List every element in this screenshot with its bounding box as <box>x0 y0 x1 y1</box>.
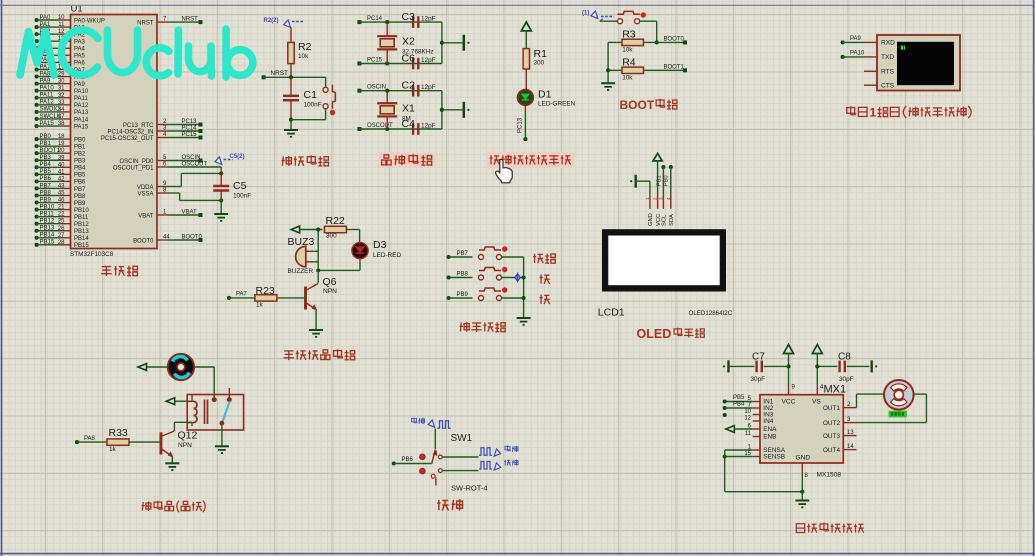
svg-text:R33: R33 <box>109 427 128 439</box>
svg-text:PC15-OSC32_OUT: PC15-OSC32_OUT <box>101 136 154 142</box>
svg-text:PB8: PB8 <box>457 272 469 278</box>
svg-text:PA11: PA11 <box>40 93 54 99</box>
svg-text:NRST: NRST <box>271 70 288 77</box>
svg-text:OSCIN: OSCIN <box>182 155 201 161</box>
svg-text:44: 44 <box>163 235 170 241</box>
svg-text:10k: 10k <box>622 47 633 54</box>
svg-text:PB5: PB5 <box>40 169 52 175</box>
svg-text:OUT3: OUT3 <box>823 433 840 440</box>
svg-text:NPN: NPN <box>323 288 337 295</box>
svg-text:PA10: PA10 <box>850 51 865 57</box>
svg-text:30: 30 <box>58 79 65 85</box>
svg-text:30pF: 30pF <box>751 376 766 383</box>
svg-text:PB13: PB13 <box>74 229 89 235</box>
svg-text:43: 43 <box>58 183 65 189</box>
svg-text:25: 25 <box>58 219 65 225</box>
svg-text:PB1: PB1 <box>40 141 52 147</box>
svg-text:OSCOUT: OSCOUT <box>367 123 393 129</box>
svg-text:OUT2: OUT2 <box>823 420 840 427</box>
svg-text:PC13: PC13 <box>182 119 198 125</box>
svg-text:39: 39 <box>58 155 65 161</box>
svg-text:PB13: PB13 <box>40 226 55 232</box>
svg-text:11: 11 <box>58 22 65 28</box>
svg-text:PB9: PB9 <box>457 292 469 298</box>
svg-text:R22: R22 <box>326 215 345 227</box>
svg-text:100nF: 100nF <box>233 193 251 200</box>
svg-text:PA14: PA14 <box>74 117 89 123</box>
svg-text:PC15: PC15 <box>367 58 383 64</box>
svg-text:RTS: RTS <box>881 69 895 76</box>
svg-text:D3: D3 <box>373 239 387 251</box>
svg-text:STM32F103C8: STM32F103C8 <box>70 251 114 258</box>
svg-text:OSCOUT: OSCOUT <box>182 162 208 168</box>
svg-text:12: 12 <box>744 416 751 422</box>
svg-text:20: 20 <box>58 148 65 154</box>
svg-text:29: 29 <box>58 72 65 78</box>
svg-text:PB11: PB11 <box>40 211 55 217</box>
svg-text:PB3: PB3 <box>74 159 86 165</box>
svg-text:VBAT: VBAT <box>182 210 198 216</box>
svg-text:PA6: PA6 <box>74 61 86 67</box>
svg-text:12pF: 12pF <box>421 57 436 64</box>
svg-text:C3: C3 <box>402 11 416 23</box>
svg-text:PB0: PB0 <box>40 134 52 140</box>
svg-text:IN4: IN4 <box>763 418 773 425</box>
svg-text:1: 1 <box>870 105 877 119</box>
svg-text:BOOT: BOOT <box>620 98 655 112</box>
svg-text:SW1: SW1 <box>451 433 473 444</box>
svg-text:BOOT1: BOOT1 <box>664 64 685 70</box>
svg-text:C4: C4 <box>402 118 416 130</box>
svg-text:34: 34 <box>58 107 65 113</box>
svg-text:PB14: PB14 <box>74 236 89 242</box>
svg-text:C5(2): C5(2) <box>230 154 245 160</box>
svg-text:PB15: PB15 <box>74 243 89 249</box>
svg-text:GND: GND <box>796 455 811 462</box>
svg-text:MX1: MX1 <box>824 384 847 396</box>
svg-text:OUT1: OUT1 <box>823 405 840 412</box>
svg-text:Q12: Q12 <box>178 430 198 442</box>
svg-text:33: 33 <box>58 100 65 106</box>
svg-text:BOOT0: BOOT0 <box>664 37 685 43</box>
svg-text:PB1: PB1 <box>657 175 663 186</box>
svg-text:PB6: PB6 <box>402 457 414 463</box>
svg-text:SCL: SCL <box>662 214 668 226</box>
svg-text:TXD: TXD <box>881 54 894 61</box>
svg-text:NRST: NRST <box>182 17 199 23</box>
svg-text:VS: VS <box>812 399 821 406</box>
svg-text:VDDA: VDDA <box>137 185 154 191</box>
svg-text:PA10: PA10 <box>74 89 89 95</box>
svg-text:PA0: PA0 <box>40 15 52 21</box>
svg-text:38: 38 <box>58 121 65 127</box>
svg-text:NPN: NPN <box>178 442 192 449</box>
svg-text:14: 14 <box>847 444 854 450</box>
svg-text:PB4: PB4 <box>733 402 745 408</box>
svg-text:OSCOUT_PD1: OSCOUT_PD1 <box>113 165 154 171</box>
svg-text:C5: C5 <box>233 180 247 192</box>
svg-text:10k: 10k <box>622 74 633 81</box>
svg-text:28: 28 <box>58 240 65 246</box>
svg-text:PB0: PB0 <box>74 137 86 143</box>
svg-text:10: 10 <box>744 409 751 415</box>
svg-text:PA5: PA5 <box>74 54 86 60</box>
svg-text:300: 300 <box>534 60 545 67</box>
svg-text:PA4: PA4 <box>74 47 86 53</box>
svg-text:PA10: PA10 <box>40 86 55 92</box>
svg-text:30pF: 30pF <box>839 376 854 383</box>
svg-text:MX1508: MX1508 <box>817 472 842 479</box>
svg-text:12pF: 12pF <box>421 123 436 130</box>
svg-text:R23: R23 <box>256 285 275 297</box>
svg-text:300: 300 <box>326 233 337 240</box>
svg-text:1k: 1k <box>109 446 117 453</box>
svg-text:ENA: ENA <box>763 426 777 433</box>
svg-text:R2(2): R2(2) <box>264 18 279 24</box>
svg-text:46: 46 <box>58 198 65 204</box>
svg-text:PC13: PC13 <box>518 117 524 133</box>
svg-text:LED-GREEN: LED-GREEN <box>538 101 576 108</box>
svg-text:ENB: ENB <box>763 434 776 441</box>
svg-text:PA8: PA8 <box>84 436 96 442</box>
svg-text:X1: X1 <box>402 102 415 114</box>
svg-text:PB12: PB12 <box>40 219 55 225</box>
svg-text:PB9: PB9 <box>40 197 52 203</box>
svg-text:100nF: 100nF <box>304 101 322 108</box>
svg-text:VCC: VCC <box>782 399 796 406</box>
svg-text:PB8: PB8 <box>40 190 52 196</box>
svg-text:C7: C7 <box>752 352 765 363</box>
svg-text:PA7: PA7 <box>236 292 248 298</box>
svg-text:19: 19 <box>58 141 65 147</box>
svg-text:R1: R1 <box>534 48 548 60</box>
svg-text:PC13_RTC: PC13_RTC <box>123 123 154 129</box>
svg-text:C8: C8 <box>838 352 851 363</box>
svg-text:PA11: PA11 <box>74 96 88 102</box>
svg-text:OSCIN: OSCIN <box>367 85 386 91</box>
svg-text:45: 45 <box>58 191 65 197</box>
svg-text:NRST: NRST <box>137 20 154 26</box>
svg-text:13: 13 <box>847 430 854 436</box>
svg-text:(1): (1) <box>582 11 589 17</box>
svg-text:11: 11 <box>745 431 752 437</box>
svg-text:VSSA: VSSA <box>137 191 153 197</box>
svg-text:SDA: SDA <box>669 214 675 226</box>
svg-text:PB11: PB11 <box>74 215 89 221</box>
svg-text:OUT4: OUT4 <box>823 447 840 454</box>
svg-text:PB5: PB5 <box>74 173 86 179</box>
svg-text:RXD: RXD <box>881 40 895 47</box>
svg-text:BOOT0: BOOT0 <box>133 238 154 244</box>
svg-text:PC14: PC14 <box>182 126 198 132</box>
svg-text:PA12: PA12 <box>74 103 89 109</box>
svg-text:PC14-OSC32_IN: PC14-OSC32_IN <box>107 129 153 135</box>
svg-text:D1: D1 <box>538 89 552 101</box>
svg-text:PB1: PB1 <box>74 144 86 150</box>
svg-text:PB10: PB10 <box>74 208 89 214</box>
svg-text:SENSB: SENSB <box>763 454 785 461</box>
svg-text:PB4: PB4 <box>74 166 86 172</box>
svg-text:PA15: PA15 <box>74 124 89 130</box>
svg-text:PB8: PB8 <box>74 194 86 200</box>
svg-text:OLED12864I2C: OLED12864I2C <box>689 310 733 317</box>
svg-text:31: 31 <box>58 86 65 92</box>
svg-text:18: 18 <box>58 134 65 140</box>
svg-text:27: 27 <box>58 233 65 239</box>
svg-text:BUZ3: BUZ3 <box>288 236 315 248</box>
svg-text:PA9: PA9 <box>74 82 86 88</box>
svg-text:40: 40 <box>58 162 65 168</box>
svg-text:PB9: PB9 <box>74 201 86 207</box>
svg-text:PA8: PA8 <box>40 71 52 77</box>
svg-text:PB2: PB2 <box>74 152 86 158</box>
svg-text:PC14: PC14 <box>367 16 383 22</box>
svg-text:PB6: PB6 <box>40 176 52 182</box>
svg-text:PA3: PA3 <box>74 40 86 46</box>
svg-text:PB14: PB14 <box>40 233 55 239</box>
svg-text:PA12: PA12 <box>40 100 55 106</box>
svg-text:SW-ROT-4: SW-ROT-4 <box>451 484 488 493</box>
svg-text:OSCIN_PD0: OSCIN_PD0 <box>119 159 154 165</box>
svg-text:PB10: PB10 <box>40 204 55 210</box>
svg-text:PB3: PB3 <box>40 155 52 161</box>
svg-text:PB5: PB5 <box>733 395 745 401</box>
svg-text:10: 10 <box>58 15 65 21</box>
svg-text:CTS: CTS <box>881 82 895 89</box>
svg-text:42: 42 <box>58 176 65 182</box>
svg-text:PB4: PB4 <box>40 162 52 168</box>
svg-text:PB6: PB6 <box>74 180 86 186</box>
svg-text:32: 32 <box>58 93 65 99</box>
svg-text:LED-RED: LED-RED <box>373 252 401 259</box>
svg-text:26: 26 <box>58 226 65 232</box>
svg-text:R3: R3 <box>622 29 636 41</box>
svg-text:10k: 10k <box>298 53 309 60</box>
svg-text:R2: R2 <box>298 41 312 53</box>
svg-text:PA13: PA13 <box>74 110 89 116</box>
svg-text:BUZZER: BUZZER <box>288 268 314 275</box>
svg-text:PB0: PB0 <box>663 175 669 186</box>
svg-text:PB7: PB7 <box>74 187 86 193</box>
svg-text:PC15: PC15 <box>182 132 198 138</box>
svg-text:12pF: 12pF <box>421 16 436 23</box>
svg-text:PB12: PB12 <box>74 222 89 228</box>
svg-text:VBAT: VBAT <box>138 213 154 219</box>
svg-text:PA9: PA9 <box>40 78 52 84</box>
svg-text:OLED: OLED <box>637 327 672 341</box>
svg-text:C6: C6 <box>402 52 416 64</box>
svg-text:PB15: PB15 <box>40 240 55 246</box>
svg-text:PB7: PB7 <box>40 183 52 189</box>
svg-text:PA9: PA9 <box>850 36 862 42</box>
svg-text:X2: X2 <box>402 35 415 47</box>
svg-text:21: 21 <box>58 205 65 211</box>
svg-text:GND: GND <box>648 213 654 226</box>
svg-text:C1: C1 <box>304 89 318 101</box>
svg-text:R4: R4 <box>622 57 636 69</box>
svg-text:PB7: PB7 <box>457 251 469 257</box>
svg-text:12: 12 <box>58 29 65 35</box>
svg-text:Q6: Q6 <box>323 276 337 288</box>
svg-text:41: 41 <box>58 169 65 175</box>
svg-text:1k: 1k <box>256 302 264 309</box>
svg-text:LCD1: LCD1 <box>598 307 625 319</box>
svg-text:37: 37 <box>58 114 65 120</box>
svg-text:PA1: PA1 <box>40 22 52 28</box>
svg-text:C2: C2 <box>402 80 416 92</box>
svg-text:12pF: 12pF <box>421 84 436 91</box>
svg-text:PA15: PA15 <box>40 121 55 127</box>
svg-text:22: 22 <box>58 212 65 218</box>
svg-text:PA0-WKUP: PA0-WKUP <box>74 18 105 24</box>
